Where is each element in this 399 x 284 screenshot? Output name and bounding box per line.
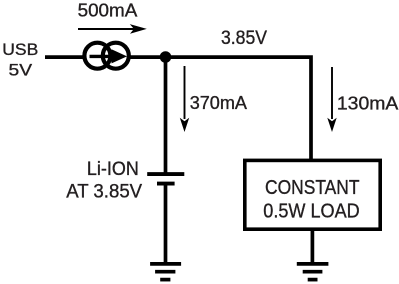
svg-text:AT 3.85V: AT 3.85V — [66, 181, 143, 203]
wire: junction down to battery — [164, 57, 168, 173]
ground (load) — [297, 264, 329, 280]
svg-text:CONSTANT: CONSTANT — [265, 176, 360, 199]
svg-text:0.5W LOAD: 0.5W LOAD — [263, 199, 359, 222]
svg-text:5V: 5V — [9, 61, 33, 80]
svg-text:130mA: 130mA — [337, 93, 399, 113]
wire: battery to ground — [164, 185, 168, 263]
svg-text:370mA: 370mA — [190, 93, 248, 113]
svg-text:Li-ION: Li-ION — [87, 158, 139, 180]
arrow: 370mA branch current — [180, 66, 189, 132]
arrow: 500mA current direction — [78, 24, 147, 34]
node: junction dot — [160, 51, 172, 63]
wire: USB input to corner and down to load — [45, 57, 311, 162]
svg-text:USB: USB — [2, 40, 38, 59]
wire: load to ground — [311, 229, 315, 263]
battery B1 (Li-ION) — [147, 174, 184, 184]
ground (battery) — [150, 264, 181, 280]
svg-text:500mA: 500mA — [78, 0, 138, 21]
load box: CONSTANT 0.5W LOAD — [245, 160, 380, 229]
current source U1 (two interlocked circles) — [84, 43, 128, 69]
arrow: 130mA branch current — [327, 67, 336, 132]
svg-text:3.85V: 3.85V — [221, 28, 267, 49]
